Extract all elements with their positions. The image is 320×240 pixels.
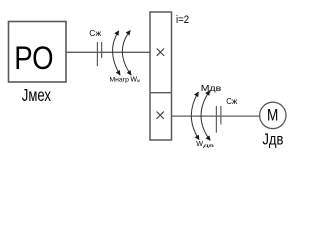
- svg-text:Мнагр: Мнагр: [110, 76, 130, 83]
- svg-text:РО: РО: [14, 40, 53, 76]
- gear cross lower: [157, 112, 164, 119]
- svg-text:Wдв: Wдв: [196, 139, 215, 148]
- block PO (working organ): [9, 22, 67, 83]
- gearbox divider: [150, 92, 172, 94]
- svg-text:i=2: i=2: [176, 14, 189, 26]
- svg-text:Wм: Wм: [130, 76, 140, 83]
- svg-text:Сж: Сж: [226, 97, 237, 106]
- wire shaft1: [66, 51, 150, 53]
- svg-text:М: М: [267, 105, 278, 124]
- arrow arc Wm: [122, 31, 131, 76]
- gearbox body: [150, 12, 172, 140]
- arrow arc Mdv: [191, 92, 199, 140]
- wire shaft2: [172, 115, 260, 117]
- arrow arc Wdv: [201, 91, 210, 141]
- svg-text:Jдв: Jдв: [262, 132, 283, 149]
- svg-text:Мдв: Мдв: [201, 83, 222, 93]
- label Jmech: [22, 85, 51, 105]
- svg-text:Сж: Сж: [89, 28, 101, 38]
- arrow arc Mnagr: [113, 31, 121, 75]
- svg-text:Jмех: Jмех: [22, 85, 51, 105]
- coupling C1 (elastic, capacitor-like bars): [97, 42, 101, 66]
- gear cross upper: [157, 49, 164, 56]
- coupling C2 (elastic, capacitor-like bars): [216, 106, 221, 133]
- motor M circle: [260, 102, 286, 128]
